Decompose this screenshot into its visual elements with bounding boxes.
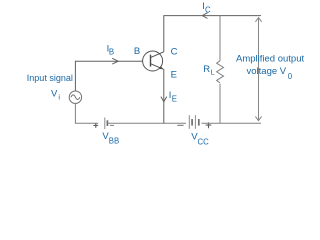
svg-text:Input signal: Input signal	[27, 73, 73, 83]
svg-text:R: R	[203, 64, 210, 75]
svg-text:voltage V: voltage V	[247, 66, 287, 77]
svg-text:i: i	[58, 93, 60, 102]
svg-text:0: 0	[288, 72, 293, 81]
svg-text:CC: CC	[198, 137, 210, 146]
svg-text:C: C	[171, 46, 178, 57]
svg-text:B: B	[109, 47, 114, 56]
svg-text:B: B	[134, 46, 140, 57]
svg-text:V: V	[51, 89, 58, 100]
svg-text:E: E	[171, 70, 177, 81]
svg-text:L: L	[211, 68, 215, 77]
svg-text:BB: BB	[109, 137, 119, 146]
svg-text:Amplified output: Amplified output	[236, 53, 304, 64]
svg-text:E: E	[172, 94, 177, 103]
svg-text:C: C	[205, 5, 211, 14]
